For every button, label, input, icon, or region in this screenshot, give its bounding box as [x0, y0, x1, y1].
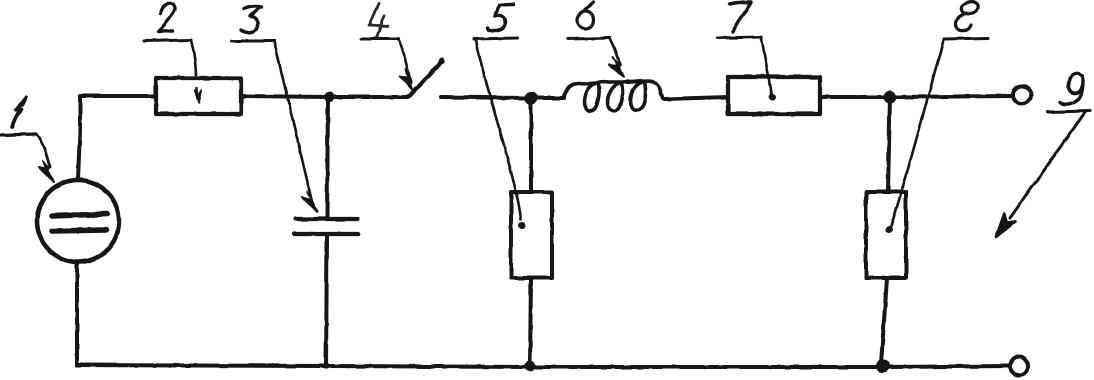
wire capacitor to bottom rail — [326, 236, 327, 366]
wire node B down to resistor R5 — [529, 98, 533, 192]
wire source to bottom rail — [75, 263, 79, 365]
label 8 — [886, 2, 989, 234]
label 7 — [717, 2, 776, 101]
wire node C down to resistor R8 — [888, 97, 890, 192]
label 4 — [361, 3, 412, 90]
bottom rail wire — [77, 365, 1009, 367]
label 2 — [144, 3, 202, 103]
source G1 — [37, 180, 119, 262]
wire inductor to resistor R7 — [665, 97, 728, 99]
node D junction bottom under R5 — [525, 361, 536, 372]
wire resistor R8 to bottom rail — [881, 278, 887, 364]
wire resistor R7 to node C — [820, 95, 884, 99]
node E junction bottom under R8 — [877, 360, 890, 373]
wire resistor R2 to node A — [241, 96, 329, 97]
label 1 — [1, 97, 54, 182]
wire node C to top terminal — [896, 96, 1012, 97]
resistor R8 — [866, 192, 906, 278]
resistor R5 — [511, 192, 552, 278]
label 5 — [474, 4, 526, 229]
node F capacitor bottom rail joint — [324, 363, 330, 369]
wire switch to node B — [441, 97, 526, 98]
wire resistor R5 to bottom rail — [530, 278, 531, 364]
wire riser from source to top rail — [78, 96, 155, 180]
label 3 — [231, 6, 317, 212]
wire node A down to capacitor — [327, 97, 328, 217]
resistor R7 — [728, 77, 820, 114]
terminal top — [1013, 86, 1031, 104]
label 9 — [996, 73, 1090, 237]
inductor L6 — [564, 81, 665, 111]
label 6 — [568, 2, 624, 77]
capacitor C3 — [294, 219, 358, 234]
wire node B to inductor — [536, 96, 564, 100]
resistor R2 — [156, 78, 241, 114]
node C junction — [884, 91, 897, 104]
node B junction — [525, 92, 538, 105]
switch S4 blade — [410, 58, 445, 96]
wire node A to switch — [329, 95, 408, 99]
node A junction — [324, 92, 335, 103]
terminal bottom — [1010, 357, 1028, 375]
